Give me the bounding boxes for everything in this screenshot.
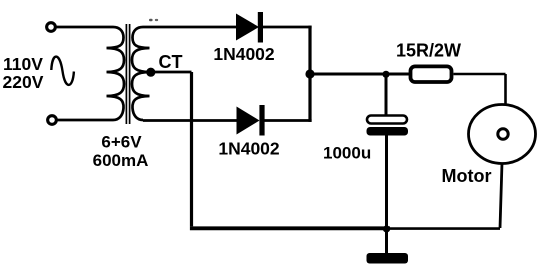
diode D1 top 1N4002 triangle (236, 14, 259, 41)
AC sine symbol (51, 57, 74, 85)
wire ground rail left (190, 226, 390, 230)
svg-text:1N4002: 1N4002 (218, 139, 280, 159)
specks above secondary (149, 19, 153, 22)
svg-text:1000u: 1000u (323, 144, 371, 163)
junction diode outputs (305, 69, 314, 78)
wire CT horizontal (151, 71, 192, 74)
AC terminal top (47, 23, 56, 32)
ground symbol (367, 253, 409, 264)
svg-text:CT: CT (159, 52, 183, 72)
transformer core (126, 24, 129, 124)
svg-text:6+6V: 6+6V (101, 133, 142, 152)
junction ground (383, 225, 390, 232)
diode D1 cathode bar (258, 12, 263, 43)
svg-text:15R/2W: 15R/2W (396, 41, 461, 61)
motor M1 body (469, 105, 536, 164)
AC terminal bottom (48, 116, 57, 125)
wire bridge output vertical (308, 26, 311, 122)
capacitor C1 positive plate (367, 116, 407, 124)
resistor R1 body (411, 66, 452, 82)
node CT dot (146, 68, 155, 77)
wire secondary bottom to diode (143, 119, 237, 122)
diode D2 cathode bar (259, 105, 264, 136)
wire capacitor top lead (385, 74, 388, 116)
wire secondary top to diode (143, 26, 236, 29)
svg-text:110V: 110V (3, 54, 43, 74)
svg-text:1N4002: 1N4002 (213, 44, 275, 64)
capacitor C1 negative plate (367, 127, 409, 136)
wire primary bottom (57, 119, 114, 122)
svg-text:600mA: 600mA (93, 151, 149, 170)
wire motor top lead (504, 74, 507, 105)
svg-text:220V: 220V (3, 72, 44, 92)
motor M1 shaft (498, 129, 508, 139)
transformer T1 primary winding (107, 27, 125, 120)
wire capacitor bottom lead (385, 136, 388, 229)
svg-text:Motor: Motor (442, 166, 492, 186)
diode D2 bottom 1N4002 triangle (237, 107, 260, 135)
wire ground rail right (390, 227, 500, 230)
wire resistor to motor corner (454, 73, 506, 76)
junction capacitor top (382, 71, 389, 78)
ground stub (385, 229, 388, 254)
wire motor bottom lead (500, 163, 502, 228)
wire primary top (56, 26, 114, 29)
wire D1 to bridge corner (263, 26, 312, 29)
wire DC rail to resistor (310, 73, 409, 76)
transformer T1 secondary winding (132, 27, 150, 120)
wire CT vertical (190, 72, 193, 226)
wire D2 to bridge corner (265, 119, 312, 122)
